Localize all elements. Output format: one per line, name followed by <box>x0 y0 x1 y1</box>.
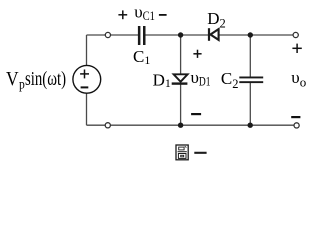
label Vp sin(wt) <box>6 69 66 92</box>
node B top junction after D2 <box>248 32 253 37</box>
plus vo <box>292 44 301 53</box>
svg-text:C2: C2 <box>221 69 239 91</box>
capacitor C1 <box>138 26 146 45</box>
wire left branch upper <box>86 35 88 66</box>
svg-text:D1: D1 <box>153 70 171 90</box>
terminal bottom-left <box>105 123 110 128</box>
wire C2 branch upper <box>249 35 251 77</box>
svg-text:C1: C1 <box>133 47 150 67</box>
node D bottom junction right <box>248 123 253 128</box>
wire top rail left <box>87 34 139 36</box>
svg-text:υC1: υC1 <box>134 2 155 23</box>
svg-text:p: p <box>19 78 25 93</box>
wire top rail right <box>219 34 296 36</box>
minus vo <box>291 116 300 118</box>
terminal bottom-right <box>294 123 299 128</box>
wire bottom rail <box>87 124 297 126</box>
node C bottom junction left <box>178 123 183 128</box>
svg-text:D2: D2 <box>207 9 226 30</box>
diode D1 <box>172 74 188 83</box>
wire D1 branch lower <box>180 85 182 126</box>
plus vC1 <box>118 10 127 19</box>
wire C2 branch lower <box>249 83 251 126</box>
svg-text:υo: υo <box>291 68 306 89</box>
caption figure 1 (Chinese: Tu Yi) <box>176 145 207 160</box>
svg-text:V: V <box>6 69 19 90</box>
capacitor C2 <box>239 77 263 84</box>
terminal top-right <box>293 32 298 37</box>
minus vC1 <box>159 14 167 16</box>
wire left branch lower <box>86 93 88 125</box>
voltage source VS <box>73 65 101 93</box>
plus vD1 <box>193 50 201 58</box>
node A top junction after C1 <box>178 32 183 37</box>
svg-text:υD1: υD1 <box>191 68 211 88</box>
wire top rail middle <box>145 34 209 36</box>
wire D1 branch upper <box>180 35 182 75</box>
minus vD1 <box>191 113 201 115</box>
diode D2 <box>209 28 219 41</box>
svg-text:sin(ωt): sin(ωt) <box>25 69 66 90</box>
terminal top-left <box>105 32 110 37</box>
